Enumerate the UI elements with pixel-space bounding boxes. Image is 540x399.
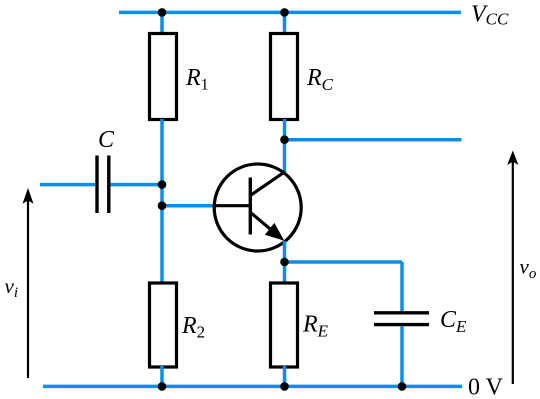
wire capacitor to divider node: [111, 183, 163, 187]
junction base node: [158, 201, 167, 210]
wire R1 bottom to R2 top: [160, 119, 164, 283]
junction capacitor node: [158, 180, 167, 189]
wire emitter node to CE: [285, 260, 403, 264]
junction ground / RE: [280, 382, 289, 391]
wire RC bottom to transistor collector: [283, 119, 287, 172]
svg-text:VCC: VCC: [471, 2, 509, 29]
junction ground / CE: [398, 382, 407, 391]
resistor R1: [150, 34, 177, 120]
svg-text:C: C: [98, 127, 115, 153]
svg-text:R1: R1: [185, 65, 209, 94]
wire base node to transistor: [162, 204, 215, 208]
wire emitter node down to RE: [283, 262, 287, 284]
junction emitter node: [280, 258, 289, 267]
svg-text:RE: RE: [302, 312, 329, 341]
wire emitter to emitter node: [283, 241, 287, 263]
wire ground rail: [43, 385, 462, 389]
arrow vo: [507, 151, 518, 385]
transistor Q1: [214, 164, 302, 251]
capacitor CE: [374, 313, 429, 325]
wire top rail to RC: [283, 12, 287, 35]
wire input left segment: [40, 183, 95, 187]
svg-text:RC: RC: [306, 65, 334, 94]
wire RE bottom to ground rail: [283, 366, 287, 386]
wire CE bottom to ground rail: [400, 326, 404, 386]
junction ground / R2: [158, 382, 167, 391]
wire R2 bottom to ground rail: [160, 366, 164, 386]
svg-text:vo: vo: [520, 255, 537, 283]
wire collector output to right: [285, 138, 462, 142]
wire VCC top rail: [119, 11, 461, 15]
arrow vi: [23, 188, 34, 378]
svg-text:0 V: 0 V: [468, 375, 504, 399]
svg-text:R2: R2: [181, 313, 205, 342]
junction collector output node: [280, 135, 289, 144]
wire top rail to R1: [160, 12, 164, 35]
svg-text:CE: CE: [440, 307, 467, 336]
capacitor C: [97, 156, 109, 214]
resistor RE: [271, 283, 298, 367]
resistor R2: [150, 283, 177, 367]
svg-text:vi: vi: [5, 274, 19, 301]
junction top rail / R1: [158, 8, 167, 17]
resistor RC: [271, 34, 298, 120]
junction top rail / RC: [280, 8, 289, 17]
wire CE top: [400, 262, 404, 312]
